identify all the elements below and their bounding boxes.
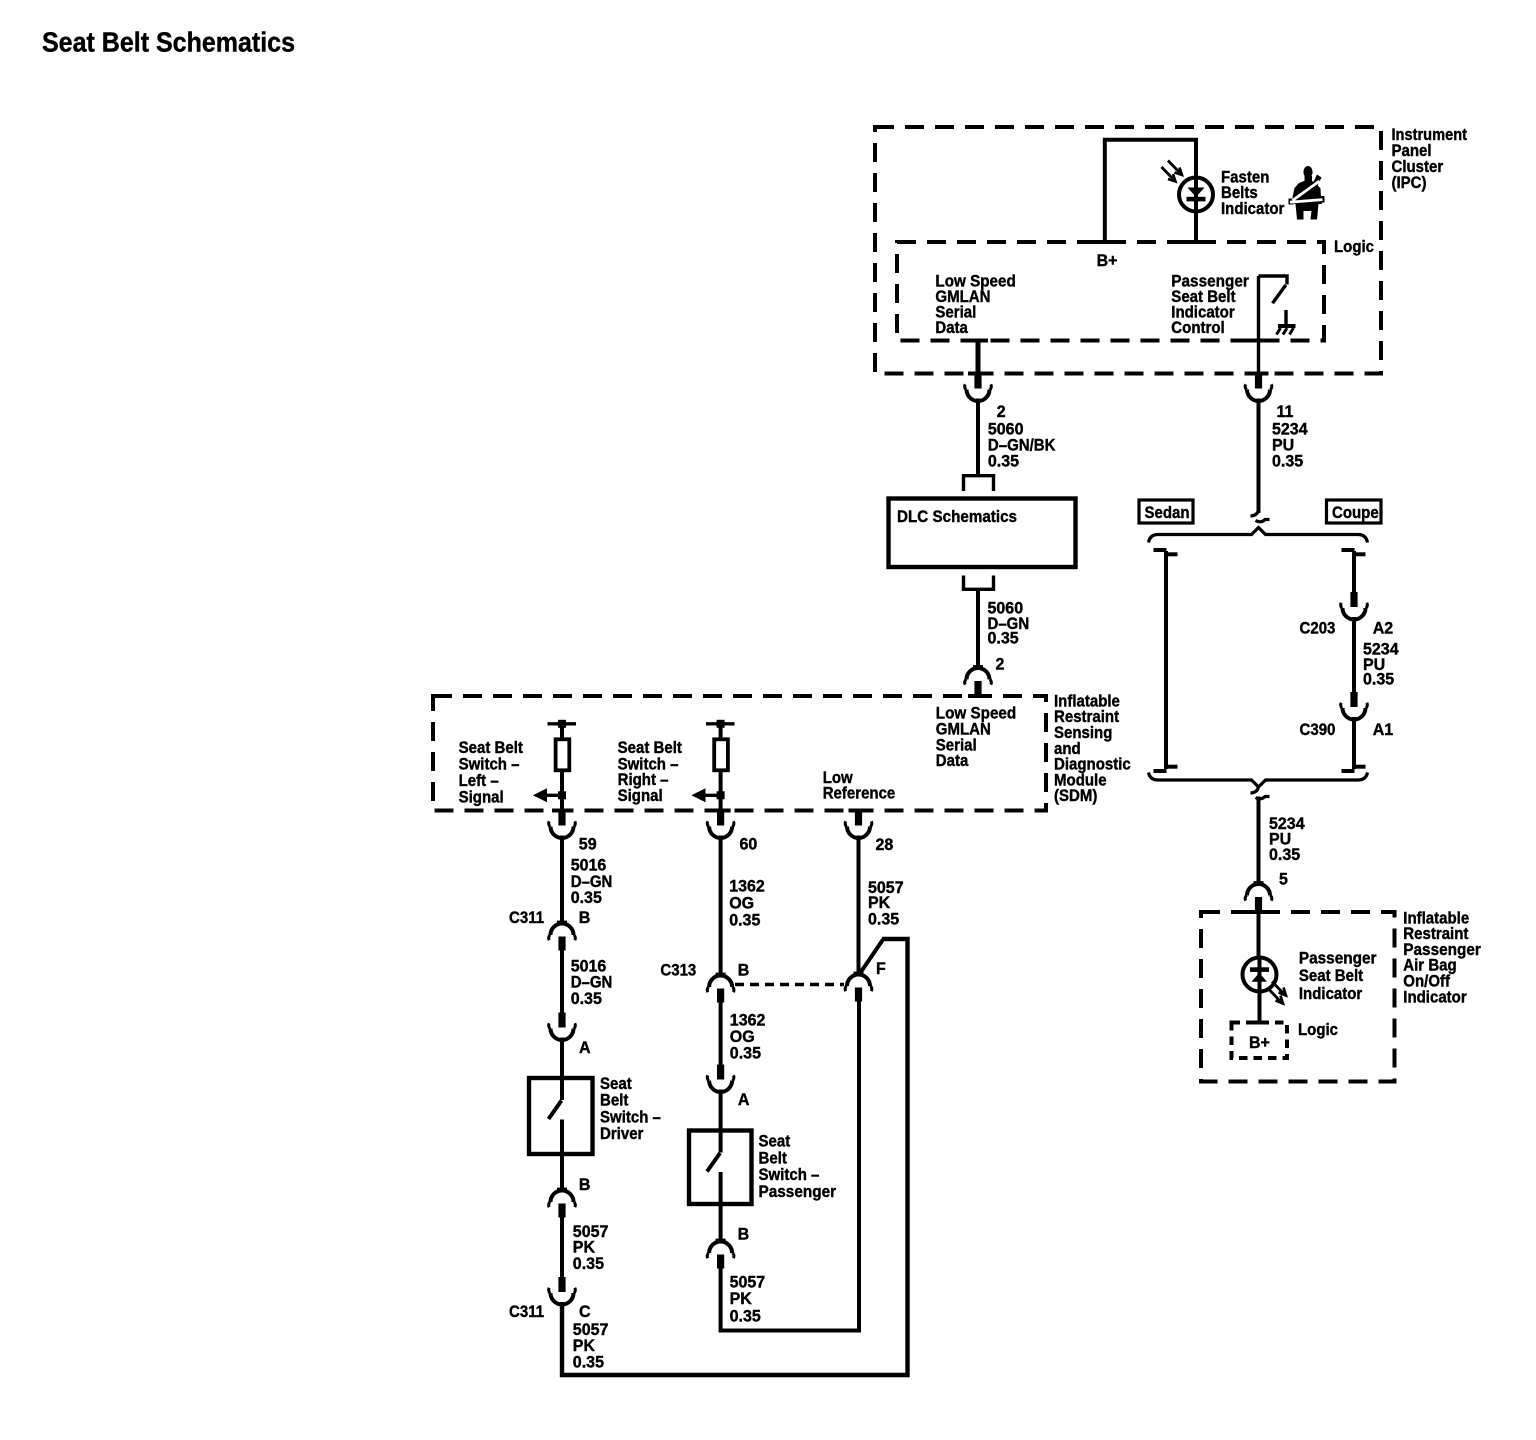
svg-text:(SDM): (SDM) [1054, 787, 1097, 805]
svg-text:C: C [579, 1303, 591, 1321]
dashed link C313 to F [735, 983, 844, 986]
svg-text:Reference: Reference [823, 785, 896, 803]
wire sedan branch [1164, 551, 1168, 769]
svg-text:C311: C311 [509, 909, 544, 927]
wire passenger return loop [721, 1002, 859, 1331]
svg-text:0.35: 0.35 [730, 1045, 761, 1063]
wire C311 to A [560, 951, 564, 1013]
connector C390 [1341, 692, 1368, 720]
wire 5060 D-GN/BK label [988, 421, 1056, 471]
svg-text:OG: OG [729, 895, 754, 913]
Inflatable Restraint Passenger Air Bag On/Off Indicator dashed box [1201, 912, 1395, 1082]
svg-text:Data: Data [936, 752, 969, 770]
svg-text:0.35: 0.35 [1363, 670, 1394, 688]
svg-text:0.35: 0.35 [730, 1308, 761, 1326]
resistor R-right (seat belt switch right signal) [706, 720, 735, 811]
Seat Belt Switch - Right - Signal label [618, 739, 683, 805]
svg-text:2: 2 [996, 656, 1005, 674]
svg-text:2: 2 [997, 403, 1006, 421]
svg-text:1362: 1362 [729, 878, 765, 896]
svg-text:Seat Belt: Seat Belt [618, 739, 683, 757]
svg-text:Switch –: Switch – [459, 756, 520, 774]
arrow right signal [691, 788, 724, 802]
connector SDM pin 59 [549, 811, 576, 839]
option merge brace bottom [1149, 773, 1368, 788]
switch driver contacts [549, 1078, 563, 1154]
svg-text:PK: PK [573, 1239, 595, 1257]
connector C311 terminal B [549, 921, 576, 951]
wire A to passenger switch [719, 1090, 723, 1131]
svg-text:B: B [738, 1226, 750, 1244]
svg-text:B+: B+ [1097, 252, 1118, 270]
svg-text:C203: C203 [1300, 620, 1336, 638]
Low Reference label [823, 769, 896, 803]
wire coupe branch mid [1352, 617, 1356, 692]
DLC bottom bracket [964, 576, 994, 590]
svg-text:Driver: Driver [600, 1125, 644, 1143]
svg-text:Indicator: Indicator [1221, 200, 1285, 218]
ground (logic control) [1277, 310, 1296, 335]
wire 5057 PK label (driver upper) [573, 1223, 609, 1273]
Seat Belt Switch - Passenger label [759, 1133, 837, 1201]
svg-text:Passenger: Passenger [759, 1183, 837, 1201]
wire 60 to C313 [719, 836, 723, 977]
wire 5057 PK label (passenger) [730, 1274, 766, 1326]
svg-text:0.35: 0.35 [571, 990, 602, 1008]
svg-text:0.35: 0.35 [868, 911, 899, 929]
connector driver switch terminal A [549, 1013, 576, 1041]
Low Speed GMLAN Serial Data label (SDM) [936, 705, 1016, 770]
svg-text:Seat Belt: Seat Belt [459, 739, 524, 757]
SDM label [1054, 692, 1131, 805]
svg-text:PK: PK [730, 1290, 752, 1308]
svg-text:0.35: 0.35 [573, 1354, 604, 1372]
svg-text:Signal: Signal [618, 787, 663, 805]
svg-text:1362: 1362 [730, 1012, 766, 1030]
svg-text:Left –: Left – [459, 772, 499, 790]
crossing dashes SDM edges [552, 696, 988, 811]
connector C311 terminal C [549, 1277, 576, 1305]
wire 1362 OG label (lower) [730, 1012, 766, 1063]
wire coupe branch upper [1352, 551, 1356, 592]
wire DLC to SDM [976, 589, 980, 668]
wire driver return loop [562, 939, 908, 1375]
Sedan tag box [1139, 500, 1193, 523]
seat belt person icon [1289, 166, 1325, 220]
svg-text:F: F [876, 960, 886, 978]
svg-text:0.35: 0.35 [988, 630, 1019, 648]
Fasten Belts Indicator label [1221, 169, 1285, 219]
svg-text:B: B [579, 1176, 591, 1194]
svg-text:OG: OG [730, 1028, 755, 1046]
svg-text:Switch –: Switch – [759, 1166, 820, 1184]
svg-text:Seat Belt Schematics: Seat Belt Schematics [42, 27, 295, 58]
svg-text:C313: C313 [660, 961, 696, 979]
svg-text:Indicator: Indicator [1299, 985, 1363, 1003]
wire B+ loop [1105, 140, 1196, 242]
wire break below merge [1251, 786, 1270, 799]
svg-text:Control: Control [1171, 319, 1224, 337]
sedan branch end squiggle [1154, 767, 1178, 771]
wire pin 2 to DLC [976, 399, 980, 475]
wire 5016 D-GN label (lower) [571, 958, 613, 1008]
svg-text:A1: A1 [1373, 721, 1394, 739]
wire 5234 PU label [1272, 421, 1308, 471]
svg-text:(IPC): (IPC) [1392, 174, 1427, 192]
wire B to C311 C [560, 1218, 564, 1278]
seat belt switch driver box [529, 1078, 593, 1154]
wire 59 to C311 [560, 836, 564, 925]
svg-text:A2: A2 [1373, 620, 1394, 638]
svg-text:A: A [579, 1039, 591, 1057]
wire 5234 PU label (lower) [1269, 815, 1305, 864]
connector pin 5 entry [1245, 881, 1272, 911]
Instrument Panel Cluster (IPC) outer dashed box [875, 127, 1381, 374]
wire 1362 OG label (upper) [729, 878, 765, 930]
Inflatable Restraint Sensing and Diagnostic Module (SDM) dashed box [433, 696, 1046, 811]
svg-text:0.35: 0.35 [573, 1255, 604, 1273]
connector C313 terminal B [707, 973, 734, 1003]
connector SDM pin 2 entry [965, 665, 992, 695]
connector C203 [1341, 592, 1368, 620]
wire pin 11 down to split [1257, 399, 1261, 514]
svg-text:Seat: Seat [600, 1075, 632, 1093]
wire: GMLAN stub logic box to IPC edge [976, 341, 981, 374]
svg-text:28: 28 [876, 836, 894, 854]
svg-text:60: 60 [740, 836, 758, 854]
seat belt switch passenger box [689, 1131, 752, 1205]
svg-text:Indicator: Indicator [1403, 988, 1467, 1006]
wire coupe branch lower [1352, 717, 1356, 769]
svg-text:0.35: 0.35 [729, 912, 760, 930]
wire 5234 PU label (coupe) [1363, 641, 1399, 689]
coupe branch end squiggle [1342, 767, 1366, 771]
svg-text:Seat Belt: Seat Belt [1299, 967, 1364, 985]
Coupe tag box [1327, 500, 1382, 523]
crossing dashes on box edges [968, 242, 1269, 374]
connector passenger switch terminal A [707, 1065, 734, 1093]
Passenger Seat Belt Indicator label [1299, 949, 1377, 1003]
Logic inner dashed box [897, 242, 1324, 341]
switch: passenger seat belt indicator control [1259, 276, 1288, 303]
Seat Belt Switch - Left - Signal label [459, 739, 524, 807]
wire C313 to A [719, 1003, 723, 1065]
wire 28 to F [857, 836, 861, 976]
connector IPC pin 2 [965, 374, 992, 402]
svg-text:5: 5 [1279, 870, 1288, 888]
wire 5057 PK label (driver lower) [573, 1321, 609, 1372]
connector SDM pin 60 [707, 811, 734, 839]
svg-text:Seat: Seat [759, 1133, 791, 1151]
Seat Belt Switch - Driver label [600, 1075, 661, 1143]
svg-text:Belt: Belt [759, 1149, 788, 1167]
crossing dash B+ box top [1250, 1021, 1269, 1025]
svg-text:Switch –: Switch – [600, 1109, 661, 1127]
svg-text:A: A [738, 1091, 750, 1109]
Passenger Seat Belt Indicator Control label [1171, 272, 1249, 337]
wire LED to B+ [1258, 992, 1262, 1023]
svg-text:Belt: Belt [600, 1092, 629, 1110]
wire into airbag box [1257, 912, 1261, 958]
svg-text:PK: PK [573, 1337, 595, 1355]
svg-text:Passenger: Passenger [1299, 949, 1377, 967]
wire break [1251, 509, 1270, 522]
IPC label [1392, 126, 1468, 192]
connector F [845, 972, 872, 1002]
DLC top bracket [964, 476, 994, 491]
LED fasten belts indicator [1162, 161, 1214, 213]
svg-text:0.35: 0.35 [1269, 846, 1300, 864]
resistor R-left (seat belt switch left signal) [548, 720, 577, 811]
sedan branch start squiggle [1154, 550, 1178, 554]
wire LED to logic box [1194, 210, 1198, 242]
switch passenger contacts [707, 1131, 721, 1205]
DLC Schematics box [889, 499, 1076, 568]
wire 5016 D-GN label (upper) [571, 857, 613, 908]
wire merge to airbag indicator [1257, 797, 1261, 885]
svg-text:DLC Schematics: DLC Schematics [897, 508, 1017, 526]
svg-text:Logic: Logic [1334, 238, 1374, 256]
crossing dash airbag box top [1249, 910, 1269, 914]
svg-text:0.35: 0.35 [988, 453, 1019, 471]
connector SDM pin 28 [845, 811, 872, 839]
option split brace top [1149, 528, 1368, 543]
wire 5057 PK label (28) [868, 879, 904, 929]
LED passenger seat belt indicator [1243, 958, 1287, 1004]
wire 5060 D-GN label [988, 600, 1030, 648]
svg-text:Sedan: Sedan [1145, 504, 1190, 522]
svg-text:D–GN: D–GN [571, 873, 613, 891]
wire driver switch to B [560, 1154, 564, 1191]
connector passenger switch terminal B [707, 1239, 734, 1269]
airbag indicator label [1403, 909, 1481, 1006]
Low Speed GMLAN Serial Data label (IPC) [935, 272, 1015, 337]
node B+ dashed box [1232, 1023, 1288, 1059]
coupe branch start squiggle [1342, 550, 1366, 554]
svg-text:Coupe: Coupe [1332, 504, 1379, 522]
svg-text:B: B [738, 961, 750, 979]
svg-text:B: B [579, 909, 591, 927]
svg-text:C311: C311 [509, 1303, 544, 1321]
svg-text:5057: 5057 [730, 1274, 766, 1292]
svg-text:Data: Data [935, 319, 968, 337]
svg-text:Signal: Signal [459, 789, 504, 807]
svg-text:59: 59 [579, 836, 597, 854]
svg-text:Logic: Logic [1298, 1021, 1338, 1039]
svg-text:B+: B+ [1249, 1034, 1270, 1052]
svg-text:C390: C390 [1300, 721, 1336, 739]
wire diagonal jog to F [860, 940, 884, 975]
connector driver switch terminal B [549, 1188, 576, 1218]
svg-text:0.35: 0.35 [1272, 453, 1303, 471]
svg-text:PK: PK [868, 894, 890, 912]
svg-text:0.35: 0.35 [571, 889, 602, 907]
connector IPC pin 11 [1245, 374, 1272, 402]
svg-text:11: 11 [1277, 403, 1294, 421]
wire passenger switch to B [719, 1204, 723, 1242]
wire A to driver switch [560, 1038, 564, 1079]
arrow left signal [533, 788, 566, 802]
wire: switch to IPC pin 11 [1257, 276, 1260, 374]
